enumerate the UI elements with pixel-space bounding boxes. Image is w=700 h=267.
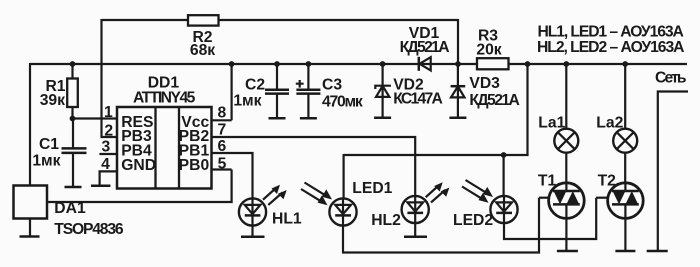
ground common bar below VD2 [374,117,391,120]
note HL/LED optocoupler types [537,24,685,56]
svg-text:VD3: VD3 [469,75,500,92]
svg-text:КД521А: КД521А [469,92,520,109]
svg-text:1: 1 [104,104,113,121]
LED HL1 emitting [239,185,302,228]
wire LED1 rail to T1 gate [342,198,539,253]
triac T2 [598,173,644,219]
node VD1/VD3/R3/R2 junction on bus [455,61,461,67]
wire HL1 bottom [251,226,253,237]
wire LED1 bottom to rail [342,226,344,253]
svg-text:GND: GND [121,157,156,174]
node R1 top on bus [70,61,76,67]
svg-text:1мк: 1мк [32,152,60,169]
svg-text:TSOP4836: TSOP4836 [54,221,124,238]
svg-text:39к: 39к [40,92,65,109]
wire T2 gate lead [596,197,608,199]
node Vcc tap on bus [229,61,235,67]
wire LED2 bottom to T2 gate [504,198,596,239]
wire pin6 PB1 to HL1 [212,153,253,198]
microcontroller DD1 ATTINY45 [117,75,212,189]
svg-text:HL2, LED2 – АОУ163А: HL2, LED2 – АОУ163А [537,39,685,56]
diode VD3 KD521A [451,64,520,118]
ground common bar below HL2 [404,235,427,238]
wire Vcc (pin8) to bus [212,64,232,120]
LED LED1 receiving [301,180,393,226]
capacitor C3 polarity plus [296,80,304,88]
wire T1 gate lead [539,197,550,199]
triac T1 [538,173,584,219]
svg-text:4: 4 [101,156,110,173]
svg-text:3: 3 [101,139,110,156]
svg-text:C3: C3 [322,76,342,93]
wire T2 bottom [624,218,626,251]
svg-text:КД521А: КД521А [400,39,450,56]
wire DA1 down lead [29,219,31,237]
node VD2 tap on bus [380,61,386,67]
svg-text:T2: T2 [598,173,617,190]
wire pin3 PB4 stub [99,153,117,155]
wire DA1 output to PB0 (pin5) [47,170,232,203]
ground common bar below T2 [615,250,635,253]
svg-text:1мк: 1мк [233,92,261,109]
wire T1 bottom [565,218,567,251]
svg-text:La2: La2 [596,115,623,132]
svg-text:КС147А: КС147А [393,91,443,108]
svg-text:C2: C2 [245,76,265,93]
wire pin1 RES line [73,117,118,119]
wire main +bus horizontal [30,63,687,65]
diode VD1 KD521A [400,25,450,71]
node R1 bottom / RES / C1 [70,116,76,122]
svg-text:68к: 68к [190,42,215,59]
wire bus down and left to LED1/LED2 tops [344,64,528,155]
wire La2 to T2 [624,153,626,183]
node La2 tap on bus [622,61,628,67]
resistor R1 [40,64,78,119]
node LED2 top tap [501,152,507,158]
ground common bar below C2 [269,117,286,120]
ground common bar below C3 [300,117,317,120]
capacitor C1 [32,119,86,188]
ground common bar below GND pin [91,185,110,188]
svg-text:5: 5 [218,156,227,173]
capacitor C2 [233,64,289,118]
wire LED1 drop [343,154,345,198]
svg-text:C1: C1 [39,136,59,153]
IR receiver DA1 TSOP4836 [14,186,124,238]
wire vertical top-right down to bus node [457,19,459,64]
wire pin2 PB3 line [101,136,118,138]
ground common bar below T1 [557,250,578,253]
wire LED2 drop [503,155,505,196]
svg-text:20к: 20к [476,42,501,59]
lamp La1 [538,64,578,153]
LED LED2 receiving [453,180,518,229]
node LED feed tap on bus [525,61,531,67]
svg-text:HL1: HL1 [272,211,302,228]
ground common bar below HL1 [241,235,265,238]
ground common bar below C1 [65,186,82,189]
wire La1 to T1 [565,153,567,183]
wire pin7 PB2 to HL2 [212,137,416,196]
svg-text:470мк: 470мк [322,93,363,110]
svg-text:LED1: LED1 [352,180,392,197]
svg-text:PB0: PB0 [179,157,210,174]
svg-text:Сеть: Сеть [655,70,687,87]
ground common bar below VD3 [449,117,466,120]
svg-text:La1: La1 [538,115,565,132]
ground common bar below DA1 [20,235,40,238]
node La1 tap on bus [563,61,569,67]
wire pin4 GND bend to common [100,171,117,185]
svg-text:ATTINY45: ATTINY45 [133,89,196,106]
node C2 tap on bus [274,61,280,67]
wire left drop to DA1 [29,63,31,186]
capacitor C3 [296,64,362,118]
svg-text:HL2: HL2 [371,212,401,229]
resistor R3 [476,28,508,70]
svg-text:T1: T1 [538,173,557,190]
svg-text:LED2: LED2 [453,212,493,229]
lamp La2 [596,64,637,153]
resistor R2 [188,15,219,59]
node C3 tap on bus [306,61,312,67]
wire top from R2 left to PB3 vertical [102,19,459,21]
ground common bar below mains wire [647,250,668,253]
svg-text:8: 8 [218,105,227,122]
zener diode VD2 KC147A [375,64,443,118]
LED HL2 emitting [371,182,449,229]
wire vertical R2-left down to pin2 (PB3) [100,19,102,137]
wire mains second terminal [658,92,688,252]
wire HL2 bottom [414,223,416,237]
svg-text:2: 2 [104,123,113,140]
